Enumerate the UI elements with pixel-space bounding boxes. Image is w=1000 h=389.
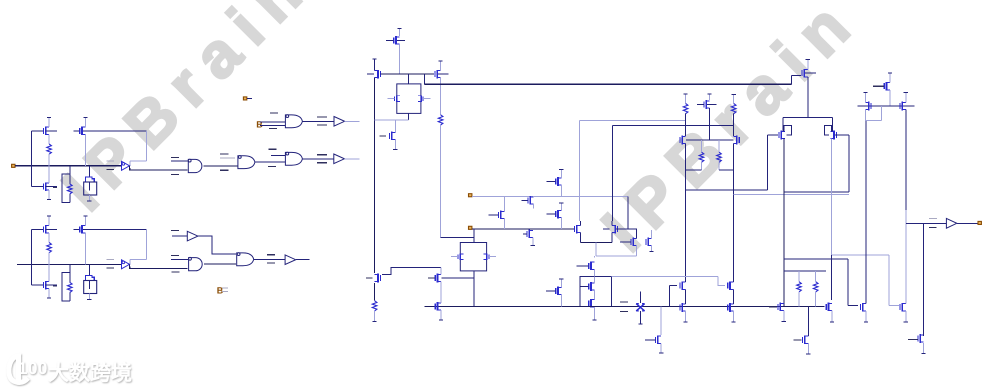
wire M21 drain bbox=[636, 229, 638, 238]
label M13 gate bbox=[379, 135, 386, 137]
wire M28 source bbox=[440, 310, 442, 320]
tick RC3 top bbox=[732, 93, 736, 95]
wire X sym top bbox=[639, 292, 641, 304]
resistor R11 bbox=[372, 301, 377, 311]
wire M39 source bbox=[783, 311, 785, 322]
wire BM1 bulk bbox=[46, 228, 57, 230]
wire M28 drain bbox=[440, 298, 442, 303]
wire A feedback right vertical bbox=[145, 131, 147, 161]
label BUF3 in bbox=[171, 230, 179, 232]
wire P2 source rail bbox=[831, 139, 833, 256]
wire BM2 drain stub bbox=[48, 264, 50, 281]
transistor M10 top bbox=[395, 36, 397, 45]
label OR2 lower bbox=[220, 169, 229, 171]
wire AC1 bottom stub bbox=[88, 195, 90, 200]
wire A feedback return bbox=[130, 160, 146, 162]
wire AM1 bulk bbox=[46, 130, 57, 132]
wire M17 source bbox=[560, 185, 562, 197]
wire M34 source bbox=[732, 311, 734, 322]
label BU1 upper bbox=[106, 258, 114, 260]
resistor R17 bbox=[813, 282, 818, 292]
resistor R15 bbox=[717, 152, 722, 162]
wire AM3 gate lead bbox=[74, 130, 80, 132]
or gate OR3 bbox=[285, 152, 302, 165]
label OR3 lower bbox=[268, 166, 276, 168]
wire M31 gate L bbox=[669, 285, 677, 287]
transistor M24 bbox=[590, 282, 592, 291]
wire AM3 drain stub bbox=[84, 117, 86, 127]
wire M25 source bbox=[593, 307, 595, 320]
wire M17 drain bbox=[560, 170, 562, 178]
wire BM3 drain stub bbox=[84, 216, 86, 226]
or gate OR2 bbox=[238, 156, 255, 169]
label BU1 lower bbox=[106, 267, 114, 269]
tick R11 tail bbox=[373, 321, 377, 323]
wire M24 gate bbox=[580, 286, 589, 288]
wire M36 source bbox=[685, 144, 687, 190]
wire A M2 gate lead bbox=[31, 186, 43, 188]
tick BM2 source end bbox=[47, 297, 51, 299]
transistor M35 bbox=[705, 100, 707, 109]
tick M30 source bbox=[659, 352, 663, 354]
wire AND1 upper input bbox=[171, 160, 188, 162]
transistor M23 bbox=[590, 262, 592, 271]
transistor M29 bbox=[557, 287, 559, 296]
wire BUF4 output bbox=[296, 259, 310, 261]
wire M40b drain bbox=[865, 120, 867, 303]
wire M21 source bbox=[636, 246, 638, 257]
transistor M44 bbox=[901, 102, 903, 111]
logo watermark bbox=[9, 354, 132, 385]
wire M15 source bbox=[533, 204, 535, 209]
tick M13 source bbox=[393, 148, 397, 150]
wire V3 top bend bbox=[580, 120, 686, 122]
wire DE tail bbox=[595, 243, 597, 257]
wire long top net bbox=[424, 83, 791, 85]
wire M43 source step bbox=[865, 106, 881, 120]
wire M29 source bbox=[560, 295, 562, 307]
wire M15 drain bbox=[533, 196, 535, 198]
wire M38 drain bbox=[807, 60, 809, 70]
tick M39 source bbox=[782, 321, 786, 323]
svg-text:B: B bbox=[217, 286, 224, 296]
wire M33 drain bbox=[732, 195, 734, 282]
wire M24 source bbox=[593, 290, 595, 299]
wire M27 bulk to box2 drop bbox=[442, 277, 474, 279]
wire P2 diode loop bbox=[824, 125, 831, 135]
wire P2 bulk link bbox=[835, 134, 849, 136]
wire M18 gate bbox=[547, 213, 556, 215]
resistor BR1 bbox=[47, 243, 52, 253]
tick M43 drain bbox=[863, 92, 867, 94]
label BUF1 lower bbox=[317, 162, 327, 164]
wire RC3 top stub bbox=[733, 94, 735, 103]
port D2 bbox=[469, 226, 472, 229]
transistor M27 bbox=[437, 274, 439, 283]
cross-coupled pair X2 bbox=[460, 243, 486, 271]
label OR1 upper bbox=[270, 112, 278, 114]
node N1 row bbox=[381, 73, 435, 75]
wire R16 bot bbox=[798, 292, 800, 307]
wire AM2 source stub bbox=[48, 190, 50, 199]
wire RC3 mid bbox=[733, 114, 735, 137]
wire M12 bulk bbox=[438, 73, 449, 75]
transistor AM3 bbox=[81, 127, 83, 136]
wire OR3 to BUF1 bbox=[303, 158, 334, 160]
wire R17 top bbox=[815, 271, 817, 282]
wire B feedback drop bbox=[129, 260, 131, 265]
wire AM2 bulk bbox=[46, 186, 57, 188]
wire OR1 to BUF2 bbox=[303, 120, 335, 122]
tick M25 source bbox=[592, 319, 596, 321]
node N2 row bbox=[858, 105, 915, 107]
wire Rtop net bbox=[784, 270, 826, 272]
tick M12 drain bbox=[439, 60, 443, 62]
wire BM2 source stub bbox=[48, 289, 50, 298]
transistor P2 bbox=[833, 131, 835, 140]
wire B feedback return bbox=[130, 259, 146, 261]
wire M41 gate lead bbox=[889, 305, 899, 307]
capacitor BC1 bbox=[86, 275, 95, 280]
wire M41 source bbox=[905, 311, 907, 322]
wire B input net bbox=[17, 263, 121, 265]
transistor M14 bbox=[500, 211, 502, 220]
wire OR2 to OR3 bbox=[255, 161, 285, 163]
wire B bit1 bbox=[260, 124, 285, 126]
transistor M22 bbox=[647, 238, 649, 247]
wire M16 gate bbox=[523, 233, 527, 235]
label AR2 bbox=[53, 186, 57, 188]
tick RC2 top bbox=[708, 93, 712, 95]
wire AND2 to OR4 bbox=[204, 263, 236, 265]
wire BUF5 out bbox=[957, 222, 978, 224]
wire bottom net bbox=[425, 305, 825, 307]
wire box to P1 gate bbox=[767, 135, 769, 190]
wire M11 drain stub bbox=[374, 59, 376, 70]
tick RC1 top bbox=[684, 93, 688, 95]
wire M31 gate drop bbox=[668, 286, 670, 307]
resistor AR2 bbox=[68, 184, 73, 194]
svg-text:B: B bbox=[256, 120, 263, 130]
wire M13 source stub bbox=[394, 140, 396, 150]
wire M40 gate lead bbox=[848, 305, 858, 307]
label BR2 bbox=[53, 285, 57, 287]
transistor M45 bbox=[919, 334, 921, 343]
wire V4 dark bbox=[612, 125, 614, 221]
tick M11 drain bbox=[373, 58, 377, 60]
label BUF4 upper bbox=[267, 254, 275, 256]
wire light low link bbox=[832, 254, 889, 256]
wire AND2 upper input bbox=[171, 259, 188, 261]
label AND1 in upper bbox=[171, 157, 179, 159]
transistor AM1 bbox=[45, 127, 47, 136]
transistor M40a bbox=[828, 303, 830, 312]
transistor M32 bbox=[681, 303, 683, 312]
input port A bbox=[12, 164, 15, 167]
wire M27 source bbox=[440, 282, 442, 298]
buffer BUF5 bbox=[946, 218, 956, 228]
wire N1 tap to box1 bbox=[407, 74, 409, 84]
tick M46 source bbox=[806, 353, 810, 355]
wire A feedback top bbox=[83, 130, 146, 132]
label BUF4 lower bbox=[267, 262, 275, 264]
wire M10 drain stub bbox=[398, 29, 400, 37]
label B lower b bbox=[222, 291, 228, 293]
wire V2 lower bbox=[440, 125, 442, 238]
wire M44 drain bbox=[905, 93, 907, 103]
transistor M30 bbox=[657, 336, 659, 345]
tick BM1 drain end bbox=[47, 215, 51, 217]
wire M45 drain bbox=[923, 331, 925, 336]
wire BR1 to net bbox=[48, 253, 50, 265]
wire M43 drain bbox=[864, 93, 866, 103]
tick M16 source bbox=[531, 245, 535, 247]
wire M10 source bbox=[398, 45, 400, 74]
wire light low drop bbox=[888, 255, 890, 306]
tick M45 source bbox=[921, 353, 925, 355]
label BUF2 lower bbox=[317, 124, 327, 126]
wire M35 bulk dash bbox=[707, 104, 717, 106]
wire V849 lower bbox=[847, 259, 849, 306]
wire M27 drain bbox=[440, 268, 442, 275]
wire R16 top bbox=[798, 271, 800, 282]
label BUF2 upper bbox=[317, 116, 327, 118]
inverter AU1 bbox=[122, 161, 130, 170]
wire M26 to M27 link bbox=[382, 268, 441, 275]
wire BM1 source to R1 bbox=[48, 233, 50, 243]
label OUT lower bbox=[929, 226, 937, 228]
tick X bottom bbox=[638, 323, 642, 325]
wire B M1 gate lead bbox=[31, 228, 43, 230]
wire DE common bbox=[580, 242, 612, 244]
wire AM1 source to R1 bbox=[48, 134, 50, 144]
wire BM1 drain stub bbox=[48, 216, 50, 226]
wire M45 source bbox=[923, 343, 925, 353]
wire R11 tail bbox=[374, 311, 376, 321]
tick M34 source bbox=[731, 321, 735, 323]
wire AU1 output bbox=[130, 166, 188, 170]
resistor R16 bbox=[797, 282, 802, 292]
transistor BM2 bbox=[45, 281, 47, 290]
port D top bbox=[243, 97, 246, 100]
label M26 gate bbox=[366, 277, 372, 279]
wire BM3 source to net bbox=[84, 233, 86, 264]
tick BC1 bottom bbox=[87, 298, 91, 300]
wire M20 bulk link bbox=[616, 228, 637, 230]
wire M18 source bbox=[560, 218, 562, 229]
wire AM1 drain stub bbox=[48, 117, 50, 127]
wire B M2 gate lead bbox=[31, 284, 43, 286]
buffer BUF3 bbox=[187, 231, 198, 241]
probe X1 bbox=[636, 304, 644, 311]
wire rail to box1 bottom bbox=[375, 119, 409, 121]
label OUT upper bbox=[929, 217, 937, 219]
wire X sym bottom bbox=[639, 311, 641, 324]
wire BUF3 to OR4 bbox=[197, 236, 236, 254]
wire M14 gate bbox=[489, 214, 499, 216]
wire M40b source bbox=[865, 311, 867, 322]
transistor M41 bbox=[901, 303, 903, 312]
wire OR4 to BUF4 bbox=[254, 259, 285, 261]
wire RC2 top stub bbox=[709, 94, 711, 100]
wire R15 bot bbox=[718, 162, 720, 170]
label OR2 upper bbox=[220, 153, 229, 155]
wire AM2 drain stub bbox=[48, 166, 50, 183]
wire BR2 parallel box bbox=[62, 273, 70, 301]
label X1 lower bbox=[620, 311, 628, 313]
tick M10 drain bbox=[397, 28, 401, 30]
wire M20 drain bbox=[611, 221, 613, 226]
wire M19 source bbox=[579, 233, 581, 243]
wire left rail V1 bbox=[374, 78, 376, 273]
wire M22 source bbox=[651, 246, 653, 252]
and gate AND1 bbox=[188, 159, 202, 172]
transistor M37 bbox=[736, 136, 738, 145]
wire R17 bot bbox=[815, 292, 817, 307]
buffer BUF2 bbox=[334, 117, 345, 127]
wire BR2 bottom bbox=[69, 293, 71, 302]
wire N1 tap long bbox=[423, 74, 425, 84]
label X1 upper bbox=[620, 301, 628, 303]
wire RC1 top stub bbox=[685, 94, 687, 104]
tick AM1 drain end bbox=[47, 116, 51, 118]
wire R14 top bbox=[701, 140, 703, 152]
wire M42 source bbox=[889, 90, 891, 106]
wire BUF3 input bbox=[172, 235, 187, 237]
wire BU1 output bbox=[130, 264, 188, 268]
tick M42 drain bbox=[888, 72, 892, 74]
transistor BM3 bbox=[81, 225, 83, 234]
wire M11 gate lead bbox=[367, 73, 374, 75]
wire low link dark bbox=[784, 258, 848, 260]
tick M32 source bbox=[683, 321, 687, 323]
wire M38 bulk dash bbox=[805, 72, 816, 74]
resistor AR1 bbox=[47, 144, 52, 154]
wire M44 source long upper bbox=[905, 110, 907, 210]
tick M18 drain bbox=[559, 202, 563, 204]
resistor R10 bbox=[438, 115, 443, 125]
wire MOS1 drain drop bbox=[831, 255, 833, 300]
wire M16 source bbox=[532, 238, 534, 246]
tick M38 drain bbox=[806, 59, 810, 61]
wire rail low bbox=[374, 283, 376, 301]
tick M28 source bbox=[439, 319, 443, 321]
transistor M12 bbox=[436, 70, 438, 79]
transistor M20 bbox=[614, 225, 616, 234]
transistor M25 bbox=[590, 299, 592, 308]
wire M21 gate bbox=[620, 241, 631, 243]
wire R14 join bbox=[686, 169, 702, 171]
wire M14 drain bbox=[503, 197, 505, 212]
transistor M28 bbox=[437, 302, 439, 311]
wire latch box bbox=[580, 276, 612, 306]
wire BUF1 output bbox=[344, 158, 359, 160]
wire P1 gate lead bbox=[768, 134, 779, 136]
wire M18 drain bbox=[560, 203, 562, 211]
wire B bit0 bbox=[260, 121, 285, 123]
transistor M40b bbox=[862, 303, 864, 312]
cross-coupled pair X1 bbox=[397, 84, 421, 114]
wire M38 source bbox=[807, 77, 809, 118]
transistor M39 bbox=[779, 303, 781, 312]
label M45 gate bbox=[908, 339, 918, 341]
svg-text:IPBrain: IPBrain bbox=[49, 0, 324, 224]
resistor R12 bbox=[683, 104, 688, 114]
resistor BR2 bbox=[68, 282, 73, 292]
resistor R13 bbox=[731, 104, 736, 114]
buffer BUF4 bbox=[285, 255, 296, 265]
transistor M21 bbox=[632, 238, 634, 247]
or gate OR4 bbox=[237, 253, 254, 266]
transistor M18 bbox=[557, 210, 559, 219]
label M39 gate bbox=[769, 306, 777, 308]
wire out tap drop bbox=[923, 223, 925, 330]
wire M30 source bbox=[660, 343, 662, 353]
wire BC1 bottom stub bbox=[88, 294, 90, 299]
label M42 gate bbox=[873, 85, 884, 87]
wire port D stub bbox=[247, 97, 252, 99]
wire M20 source bbox=[611, 233, 613, 243]
wire light mid link bbox=[612, 276, 726, 285]
wire gate join bbox=[686, 139, 734, 141]
svg-text:大数跨境: 大数跨境 bbox=[48, 361, 132, 385]
wire box2 bottom drop bbox=[473, 271, 475, 307]
transistor M19 bbox=[576, 225, 578, 234]
wire M22 drain bbox=[651, 230, 653, 239]
wire box bottom bbox=[686, 189, 768, 191]
or gate OR1 bbox=[285, 115, 302, 128]
wire M46 drain bbox=[807, 306, 809, 331]
wire A input net bbox=[15, 165, 122, 167]
transistor M34 bbox=[729, 303, 731, 312]
wire M32 source bbox=[685, 311, 687, 322]
and gate AND2 bbox=[189, 258, 203, 271]
label AU1 upper bbox=[106, 160, 114, 162]
wire M19 drain bbox=[579, 221, 581, 226]
wire supply bar bbox=[783, 116, 832, 118]
buffer BUF1 bbox=[334, 154, 345, 164]
wire P1 source rail bbox=[783, 139, 785, 307]
transistor M17 bbox=[557, 177, 559, 186]
svg-text:100: 100 bbox=[18, 359, 48, 378]
wire D2 net bbox=[472, 228, 575, 230]
wire M17 gate bbox=[547, 181, 556, 183]
wire BM2 bulk bbox=[46, 284, 57, 286]
wire V4 top bend bbox=[613, 124, 734, 126]
wire M15 gate bbox=[522, 199, 528, 201]
wire BC1 top stub bbox=[88, 264, 90, 275]
transistor M13 bbox=[391, 132, 393, 141]
transistor M38 bbox=[803, 69, 805, 78]
wire B gate rail vertical bbox=[30, 229, 32, 285]
label M46 gate bbox=[793, 339, 801, 341]
wire B feedback right vertical bbox=[145, 230, 147, 260]
wire R15 join bbox=[719, 169, 733, 171]
tick M22 source bbox=[650, 251, 654, 253]
wire AC1 top stub bbox=[88, 166, 90, 177]
wire AR1 to net bbox=[48, 154, 50, 166]
wire M46 drain2 bbox=[807, 331, 809, 336]
wire M14 source bbox=[503, 219, 505, 230]
wire gray return bbox=[596, 255, 637, 257]
wire RC1 mid bbox=[685, 114, 687, 137]
wire light supply link bbox=[733, 193, 849, 195]
svg-text:IPBrain: IPBrain bbox=[588, 0, 873, 265]
wire M44 source long lower bbox=[905, 210, 907, 304]
wire A M1 gate lead bbox=[31, 130, 43, 132]
tick AM2 source end bbox=[47, 198, 51, 200]
wire M27 gate dash bbox=[428, 277, 435, 279]
